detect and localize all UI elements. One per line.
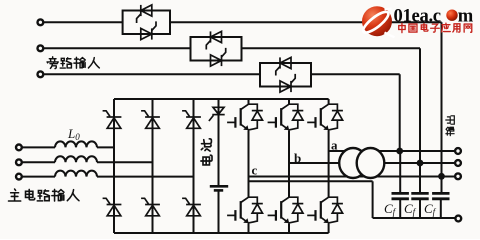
svg-text:01ea.c: 01ea.c (394, 5, 441, 26)
IGBT bottom leg3 with antiparallel diode (307, 197, 343, 224)
battery leg wire upper (218, 99, 220, 186)
static switch box 3 (anti-parallel SCR pair) (260, 63, 311, 87)
static switch box 1 (anti-parallel SCR pair) (123, 11, 170, 35)
wire: terminal3 to SCR box 3 (44, 73, 260, 75)
inductor L0 phase 3 (55, 171, 97, 177)
inductor L0 phase 1 (55, 141, 97, 147)
capacitor Cf2 (411, 163, 428, 218)
DC top bus (114, 98, 329, 100)
battery cell plates (210, 186, 228, 190)
inductor L0 phase 2 (55, 156, 97, 162)
IGBT top leg2 with antiparallel diode (268, 104, 304, 131)
inverter leg1 bottom stub (248, 224, 250, 233)
label 电池 (battery), rotated (201, 139, 212, 165)
wire: transformer neutral drop (372, 181, 374, 218)
DC bottom bus (114, 232, 329, 234)
transformer T (two circles) (339, 148, 384, 178)
output terminal a (455, 148, 461, 154)
bypass input terminal 2 (38, 45, 44, 51)
output terminal neutral (455, 216, 461, 222)
bypass input terminal 3 (38, 71, 44, 77)
output terminal b (455, 160, 461, 166)
rectifier leg 2 wire (152, 99, 154, 233)
wire: terminal to inductor 2 (22, 161, 55, 163)
main input terminal 3 (16, 174, 22, 180)
wire: inductor2 to rectifier leg 2 (97, 161, 153, 163)
wire: phase a from leg3 to output (329, 150, 455, 152)
SCR pair box3: upper thyristor (points left) (276, 57, 291, 75)
inverter leg2 middle wire (288, 131, 290, 197)
static switch box 2 (anti-parallel SCR pair) (191, 37, 242, 61)
inverter leg3 middle wire (328, 131, 330, 197)
label 旁路输入 (bypass input) (47, 57, 99, 69)
wire: SCR box2 to right vertical (242, 47, 421, 49)
thyristor bottom leg3 (182, 198, 201, 216)
IGBT top leg1 with antiparallel diode (227, 104, 263, 131)
inverter leg3 top stub (328, 99, 330, 104)
wire: SCR box3 to right vertical (311, 73, 400, 75)
SCR pair box1: upper thyristor (points left) (137, 5, 152, 23)
node dot phase b / bypass2 (417, 160, 424, 167)
wire: neutral bottom rail (373, 217, 455, 219)
wire: inductor3 to rectifier leg 3 (97, 176, 194, 178)
IGBT top leg3 with antiparallel diode (307, 104, 343, 131)
IGBT bottom leg2 with antiparallel diode (268, 197, 304, 224)
bypass input terminal 1 (38, 19, 44, 25)
SCR pair box1: lower thyristor (points right) (141, 21, 156, 39)
battery leg wire lower (218, 190, 220, 233)
logo red o ball (446, 10, 457, 21)
label 输出 (output), rotated (446, 116, 455, 136)
thyristor top leg3 (182, 111, 201, 129)
wire: vertical drop of bypass phase 1 (441, 22, 443, 176)
capacitor Cf3 (432, 176, 449, 218)
inverter leg1 middle wire (248, 131, 250, 197)
svg-text:b: b (294, 151, 301, 166)
thyristor top leg2 (141, 111, 160, 129)
SCR pair box2: lower thyristor (points right) (211, 48, 226, 66)
node dot phase c / bypass3 (438, 173, 445, 180)
main input terminal 2 (16, 159, 22, 165)
thyristor bottom leg2 (141, 198, 160, 216)
thyristor top leg1 (103, 111, 122, 129)
node dot phase a / bypass1 (396, 148, 403, 155)
wire: terminal1 to SCR box 1 (44, 21, 123, 23)
inverter leg3 bottom stub (328, 224, 330, 233)
charge thyristor (points down) (209, 107, 225, 121)
inverter leg1 top stub (248, 99, 250, 104)
SCR pair box2: upper thyristor (points left) (206, 31, 221, 49)
main input terminal 1 (16, 145, 22, 151)
rectifier leg 1 wire (113, 99, 115, 233)
thyristor bottom leg1 (103, 198, 122, 216)
output terminal c (455, 173, 461, 179)
logo sphere icon (361, 6, 395, 37)
svg-text:m: m (458, 5, 474, 26)
wire: SCR box1 to right vertical (passes behind logo) (170, 21, 442, 23)
IGBT bottom leg1 with antiparallel diode (227, 197, 263, 224)
svg-text:a: a (331, 138, 338, 153)
wire: phase b from leg2 to output (289, 162, 455, 164)
wire: terminal2 to SCR box 2 (44, 47, 191, 49)
wire: phase c from leg1 to output (249, 176, 455, 178)
inverter leg2 top stub (288, 99, 290, 104)
label 主电路输入 (main circuit input) (8, 189, 78, 201)
wire: terminal to inductor 1 (22, 146, 55, 148)
wire: vertical drop of bypass phase 3 (399, 74, 401, 151)
wire: terminal to inductor 3 (22, 176, 55, 178)
inverter leg2 bottom stub (288, 224, 290, 233)
svg-text:c: c (252, 163, 258, 178)
wire: neutral line under transformer (249, 180, 373, 182)
SCR pair box3: lower thyristor (points right) (280, 74, 295, 92)
wire: vertical drop of bypass phase 2 (419, 48, 421, 163)
rectifier leg 3 wire (193, 99, 195, 233)
capacitor Cf1 (392, 151, 409, 218)
wire: inductor1 to rectifier leg 1 (97, 146, 114, 148)
logo subtitle 中国电子应用网 (399, 23, 472, 32)
